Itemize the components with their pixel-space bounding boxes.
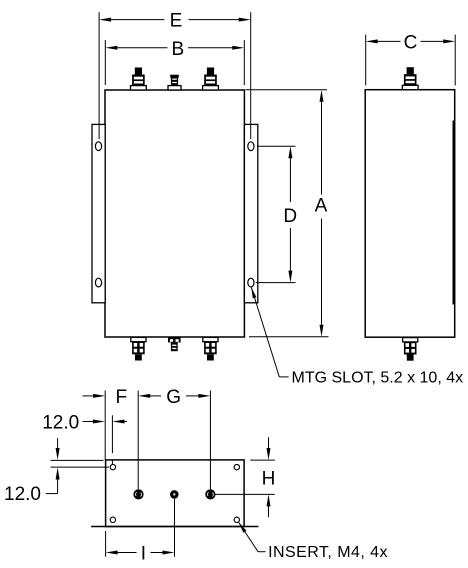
dimension H extension lines <box>215 460 274 494</box>
insert hole top-left <box>110 464 115 469</box>
bottom view left terminal <box>133 489 143 499</box>
terminal stud bottom-middle <box>168 337 181 351</box>
label A <box>315 196 328 217</box>
svg-text:D: D <box>283 206 297 227</box>
insert hole top-right <box>234 464 239 469</box>
insert hole bottom-right <box>234 517 239 522</box>
front left mounting flange <box>92 124 105 302</box>
front right mounting flange <box>244 124 257 302</box>
terminal stud bottom-left (load) <box>131 337 146 360</box>
svg-text:12.0: 12.0 <box>42 412 79 433</box>
terminal stud bottom-right <box>203 337 218 360</box>
bottom view body outline <box>106 460 245 527</box>
svg-text:C: C <box>404 32 418 53</box>
dimension 12.0 vertical extension lines <box>51 460 110 467</box>
svg-text:12.0: 12.0 <box>4 484 41 505</box>
side view top terminal <box>402 67 418 90</box>
svg-text:A: A <box>315 196 328 217</box>
front view body <box>105 90 244 337</box>
dimension E line and arrows <box>99 18 251 22</box>
mtg slot top-right <box>248 142 254 151</box>
bottom view flange plane line <box>91 526 258 528</box>
dimension 12.0 vertical arrows <box>46 438 60 493</box>
dimension C extension lines <box>366 35 456 86</box>
label H <box>262 468 276 489</box>
mtg slot bottom-left <box>95 278 101 287</box>
dimension B line and arrows <box>105 46 244 50</box>
dimension A extension lines <box>246 90 329 337</box>
label I <box>141 544 146 565</box>
bottom view right terminal <box>205 489 215 499</box>
leader to mtg slot <box>251 287 288 377</box>
svg-text:I: I <box>141 544 146 565</box>
leader to insert hole <box>239 523 266 552</box>
dimension C line and arrows <box>366 39 456 43</box>
mtg slot top-left <box>95 142 101 151</box>
side view bottom terminal <box>403 338 418 361</box>
dimension 12.0 horizontal arrows <box>83 420 128 424</box>
label 12.0 horizontal <box>42 412 79 433</box>
svg-text:MTG SLOT, 5.2 x 10, 4x: MTG SLOT, 5.2 x 10, 4x <box>292 370 464 387</box>
dimension H arrows <box>267 437 271 517</box>
dimension D line and arrows <box>288 146 292 282</box>
dimension B extension lines <box>105 40 244 85</box>
label INSERT, M4, 4x <box>268 544 388 561</box>
label MTG SLOT, 5.2 x 10, 4x <box>292 370 464 387</box>
dimension I line and arrows <box>106 551 175 555</box>
label E <box>170 11 183 32</box>
svg-text:F: F <box>115 387 127 408</box>
svg-text:B: B <box>171 39 184 60</box>
svg-text:INSERT, M4, 4x: INSERT, M4, 4x <box>268 544 388 561</box>
dimension 12.0 horizontal extension line <box>111 415 113 464</box>
dimension E extension lines <box>99 12 251 139</box>
svg-text:E: E <box>170 11 183 32</box>
label G <box>166 387 181 408</box>
side view body <box>365 90 455 338</box>
bottom view middle terminal <box>170 490 179 499</box>
svg-text:G: G <box>166 387 181 408</box>
side view flange edge line <box>452 121 454 305</box>
mtg slot bottom-right <box>248 278 254 287</box>
dimension F-G extension lines <box>105 391 210 490</box>
dimension G line and arrows <box>138 394 210 398</box>
insert hole bottom-left <box>110 517 115 522</box>
dimension F outside arrow <box>83 394 106 398</box>
label B <box>171 39 184 60</box>
label C <box>404 32 418 53</box>
label 12.0 vertical <box>4 484 41 505</box>
label F <box>115 387 127 408</box>
terminal stud top-middle (neutral) <box>168 75 181 90</box>
terminal stud top-left (line) <box>131 68 147 91</box>
terminal stud top-right <box>203 68 219 91</box>
dimension I extension lines <box>106 499 175 557</box>
dimension D extension lines <box>256 146 296 282</box>
svg-text:H: H <box>262 468 276 489</box>
dimension A line and arrows <box>320 90 324 337</box>
label D <box>283 206 297 227</box>
